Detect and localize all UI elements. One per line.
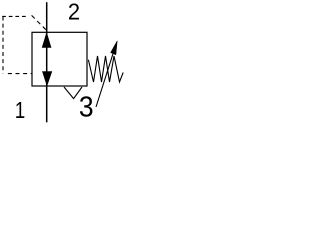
valve body V1 (pressure regulator square)	[32, 32, 87, 86]
svg-text:3: 3	[79, 92, 94, 124]
down arrowhead (flow path, inside valve body)	[43, 72, 52, 86]
pilot line (dashed): bottom horizontal run into valve body	[4, 73, 32, 75]
wire: main vertical flow line (port 2 to port 1)	[46, 2, 48, 122]
pilot line (dashed): left vertical run	[2, 17, 4, 74]
pilot line (dashed): diagonal tap from flow line above body	[32, 15, 47, 30]
svg-text:1: 1	[15, 97, 25, 123]
up arrowhead (flow path, inside valve body)	[42, 33, 51, 48]
svg-text:2: 2	[68, 0, 80, 24]
exhaust port symbol: open triangle (port 3 vent)	[64, 87, 82, 99]
adjustment arrow: filled arrowhead	[111, 41, 118, 55]
adjustment arrow: shaft crossing spring	[96, 53, 113, 107]
spring (adjustable pressure setting)	[88, 56, 123, 82]
pilot line (dashed): top horizontal run	[2, 15, 26, 17]
